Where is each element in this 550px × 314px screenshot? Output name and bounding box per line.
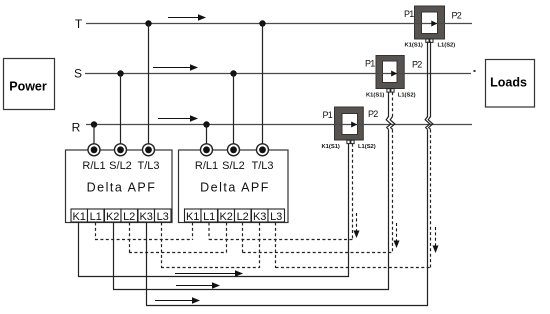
wire CT U1 S2 dashed down to return net 1 (352, 144, 354, 240)
svg-text:Power: Power (9, 80, 47, 94)
APF1 CT terminal L1 (88, 209, 105, 223)
CT U3 terminal L1(S2) (430, 39, 433, 42)
svg-text:L2: L2 (123, 211, 135, 223)
arrow indicator on CT U3 S2 wire (433, 227, 439, 253)
wire CT U2 S1 solid down with hop at R (386, 92, 391, 289)
APF1 CT terminal K2 (105, 209, 122, 223)
wire APF2 K3 dashed down (259, 223, 261, 269)
wire APF1 L3 dashed down (161, 223, 163, 268)
dashed net APF1 L3 to APF2 K3 (161, 267, 260, 269)
bus R wire (86, 124, 472, 126)
dashed net APF1 L2 to APF2 K2 (129, 252, 227, 254)
APF2 CT terminal L1 (201, 209, 218, 223)
dashed net APF2 L1 to CT U1 S2 (209, 239, 353, 241)
svg-text:L1(S2): L1(S2) (398, 93, 416, 99)
APF1 CT terminal K1 (71, 209, 88, 223)
APF1 input terminal R/L1 (88, 144, 100, 156)
APF1 CT terminal L2 (121, 209, 138, 223)
junction dot S / APF1 (117, 70, 123, 76)
svg-text:L3: L3 (270, 211, 282, 223)
wire drop T to APF1 T/L3 (148, 24, 150, 146)
APF1 input terminal S/L2 (115, 144, 127, 156)
wire bottom run K3 to CT U3 S1 (146, 305, 428, 307)
APF2 input terminal R/L1 (201, 144, 213, 156)
dashed net APF2 L2 to CT U2 S2 (243, 252, 394, 254)
loads box (486, 60, 535, 108)
svg-text:T/L3: T/L3 (137, 160, 159, 172)
wire APF2 K2 dashed down (226, 223, 228, 254)
arrow indicator on CT U2 S2 wire (394, 223, 400, 248)
CT U1 primary arrow (351, 122, 357, 128)
junction dot T / APF2 (259, 20, 265, 26)
svg-text:S/L2: S/L2 (109, 160, 132, 172)
arrow indicator on CT U1 S2 wire (354, 213, 360, 238)
APF1 CT terminal L3 (155, 209, 172, 223)
svg-text:K1(S1): K1(S1) (322, 144, 340, 150)
dashed net APF2 L3 to CT U3 S2 (276, 267, 432, 269)
wire bottom run K2 to CT U2 S1 (113, 289, 389, 291)
CT U2 terminal L1(S2) (391, 89, 394, 92)
junction dot S / APF2 (230, 70, 236, 76)
wire drop S to APF2 S/L2 (233, 74, 235, 146)
arrow on bus T (168, 14, 206, 20)
CT U2 primary arrow (391, 71, 397, 77)
svg-text:Delta APF: Delta APF (200, 181, 270, 195)
APF2 box (179, 150, 289, 223)
svg-text:K1: K1 (72, 211, 85, 223)
bus S wire (85, 73, 471, 75)
wire APF1 L1 dashed down (95, 223, 97, 240)
wire APF1 K3 down (146, 223, 148, 306)
CT U1 body on phase R (335, 107, 364, 140)
APF2 input terminal S/L2 (228, 144, 240, 156)
dashed net APF1 L1 to APF2 K1 (95, 239, 193, 241)
wire drop R to APF1 R/L1 (93, 125, 95, 146)
svg-text:T: T (75, 17, 83, 31)
bus T wire (86, 23, 472, 25)
APF2 CT terminal L2 (235, 209, 252, 223)
APF2 CT terminal K2 (218, 209, 235, 223)
svg-text:Delta APF: Delta APF (87, 181, 157, 195)
svg-text:S: S (74, 67, 82, 81)
svg-text:S/L2: S/L2 (222, 160, 245, 172)
wire APF1 K2 down (113, 223, 115, 290)
dot before loads box on S (474, 70, 476, 72)
wire CT U1 S1 solid down to bottom run (348, 144, 350, 277)
CT U3 terminal K1(S1) (426, 39, 429, 42)
wire drop T to APF2 T/L3 (262, 24, 264, 146)
wire APF1 K1 down (78, 223, 80, 277)
APF2 CT terminal K3 (252, 209, 269, 223)
power box (4, 59, 55, 110)
svg-text:K3: K3 (139, 211, 152, 223)
wire CT U3 S2 solid above hop, dashed below (428, 42, 433, 268)
svg-text:P2: P2 (452, 11, 462, 21)
APF2 input terminal T/L3 (257, 144, 269, 156)
svg-text:K3: K3 (253, 211, 266, 223)
svg-text:K2: K2 (106, 211, 119, 223)
wire CT U2 S2 dashed down with hop at R (390, 92, 395, 252)
svg-text:L1(S2): L1(S2) (358, 144, 376, 150)
wire APF2 L3 dashed down (275, 223, 277, 269)
APF1 box (66, 150, 173, 223)
APF2 CT terminal K1 (185, 209, 202, 223)
CT U2 terminal K1(S1) (387, 89, 390, 92)
arrow on bus S (153, 64, 198, 70)
wire drop R to APF2 R/L1 (206, 125, 208, 146)
svg-text:R: R (72, 121, 81, 135)
junction dot R / APF1 (91, 121, 97, 127)
svg-text:L2: L2 (237, 211, 249, 223)
junction dot R / APF2 (203, 121, 209, 127)
svg-text:L3: L3 (157, 211, 169, 223)
svg-text:K2: K2 (219, 211, 232, 223)
svg-text:K1(S1): K1(S1) (366, 93, 384, 99)
APF2 CT terminal L3 (268, 209, 285, 223)
svg-text:P2: P2 (368, 109, 378, 119)
svg-text:L1(S2): L1(S2) (438, 43, 456, 49)
APF1 input terminal T/L3 (143, 144, 155, 156)
wire APF1 L2 dashed down (129, 223, 131, 253)
wire APF2 L2 dashed down (242, 223, 244, 253)
wire APF2 K1 dashed down (192, 223, 194, 241)
svg-text:Loads: Loads (490, 76, 527, 90)
arrow on K3 bottom run (155, 297, 200, 303)
CT U1 terminal L1(S2) (351, 140, 354, 143)
CT U1 terminal K1(S1) (347, 140, 350, 143)
svg-text:K1(S1): K1(S1) (405, 43, 423, 49)
svg-text:P2: P2 (412, 60, 422, 70)
svg-text:K1: K1 (186, 211, 199, 223)
wire bottom run K1 to CT U1 S1 (78, 276, 349, 278)
arrow on bus R (158, 115, 198, 121)
svg-text:P1: P1 (404, 9, 414, 19)
svg-text:P1: P1 (365, 59, 375, 69)
svg-text:L1: L1 (203, 211, 215, 223)
svg-text:P1: P1 (323, 110, 333, 120)
CT U2 body on phase S (376, 56, 404, 89)
CT U3 primary arrow (431, 21, 437, 27)
svg-text:T/L3: T/L3 (251, 160, 273, 172)
arrow on K2 bottom run (176, 282, 220, 288)
wire APF2 L1 dashed down (208, 223, 210, 240)
svg-text:L1: L1 (90, 211, 102, 223)
wire drop S to APF1 S/L2 (120, 74, 122, 146)
svg-text:R/L1: R/L1 (82, 160, 105, 172)
arrow on K1 bottom run (175, 270, 243, 276)
wire CT U3 S1 solid down with hop at R (425, 42, 430, 306)
junction dot T / APF1 (145, 20, 151, 26)
APF1 CT terminal K3 (138, 209, 155, 223)
CT U3 body on phase T (415, 6, 445, 39)
svg-text:R/L1: R/L1 (195, 160, 218, 172)
